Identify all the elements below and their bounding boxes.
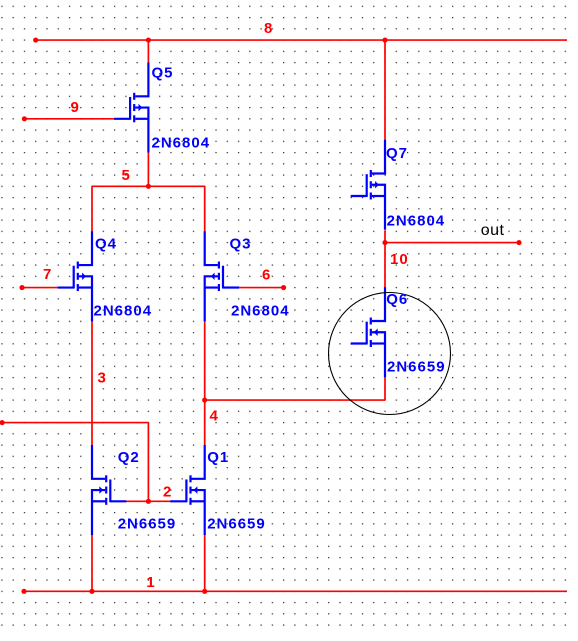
wire node 10 out wire <box>385 242 519 244</box>
svg-text:out: out <box>481 222 505 239</box>
junction node 8 / Q7 drain <box>382 37 387 42</box>
wire node 3 Q4 source to Q2 drain <box>91 320 93 446</box>
transistor Q5 <box>114 63 148 153</box>
svg-text:Q6: Q6 <box>386 291 408 308</box>
transistor Q4 <box>58 231 92 321</box>
wire Q5 drain to node 8 <box>147 40 149 63</box>
transistor Q6 <box>351 287 385 377</box>
junction node 1 / Q1 source <box>202 589 207 594</box>
svg-text:3: 3 <box>98 370 107 387</box>
highlight circle around Q6 <box>329 293 451 415</box>
svg-text:Q5: Q5 <box>152 65 174 82</box>
wire Q3 source to node 4 <box>204 320 206 400</box>
transistor Q3 <box>205 231 239 321</box>
svg-text:5: 5 <box>122 167 131 184</box>
wire node 5 drop to Q4 drain <box>91 186 93 231</box>
wire Q7 source to Q6 drain <box>384 230 386 288</box>
svg-text:Q1: Q1 <box>207 449 229 466</box>
wire node 8 bus <box>36 39 567 41</box>
svg-text:9: 9 <box>71 99 80 116</box>
terminal node 9 left end <box>22 116 27 121</box>
svg-text:4: 4 <box>210 408 219 425</box>
wire Q7 drain to node 8 <box>384 40 386 141</box>
wire node 1 bus <box>24 590 567 592</box>
terminal out end <box>516 240 521 245</box>
wire node 2 gate rail <box>126 500 173 502</box>
svg-text:Q4: Q4 <box>95 236 117 253</box>
terminal node 8 left end <box>33 37 38 42</box>
wire node 5 drop to Q3 drain <box>204 186 206 231</box>
junction node 10 <box>382 240 387 245</box>
transistor Q1 <box>170 445 204 535</box>
wire Q2 source to node 1 <box>91 535 93 592</box>
wire node 9 <box>24 118 114 120</box>
wire node 5 rail <box>92 185 205 187</box>
wire left input horizontal <box>2 422 148 424</box>
svg-text:2N6804: 2N6804 <box>387 212 446 229</box>
wire node 4 up to Q6 source <box>384 377 386 401</box>
svg-text:2N6659: 2N6659 <box>118 515 177 532</box>
terminal left input end <box>0 420 5 425</box>
svg-text:2N6804: 2N6804 <box>94 303 153 320</box>
wire node 4 down to Q1 drain <box>204 400 206 446</box>
wire node 4 rail <box>205 399 385 401</box>
svg-text:2N6804: 2N6804 <box>152 134 211 151</box>
wire Q1 source to node 1 <box>204 535 206 592</box>
svg-text:2N6659: 2N6659 <box>207 515 266 532</box>
svg-text:10: 10 <box>390 251 409 268</box>
svg-text:2: 2 <box>163 484 172 501</box>
svg-text:Q3: Q3 <box>230 236 252 253</box>
svg-text:1: 1 <box>146 574 155 591</box>
transistor Q2 <box>92 445 126 535</box>
junction node 8 / Q5 drain <box>146 37 151 42</box>
junction node 4 <box>202 397 207 402</box>
junction node 5 / Q5 source <box>146 184 151 189</box>
svg-text:2N6659: 2N6659 <box>387 358 446 375</box>
svg-text:Q2: Q2 <box>118 449 140 466</box>
wire left input drop to node 2 <box>147 423 149 502</box>
wire node 7 <box>22 287 59 289</box>
svg-text:7: 7 <box>43 266 52 283</box>
terminal node 6 right end <box>281 285 286 290</box>
wire node 6 <box>238 287 283 289</box>
transistor Q7 <box>351 140 385 230</box>
svg-text:2N6804: 2N6804 <box>231 303 290 320</box>
svg-text:Q7: Q7 <box>386 145 408 162</box>
junction node 1 / Q2 source <box>89 589 94 594</box>
wire Q5 source to node 5 <box>147 152 149 187</box>
junction node 2 <box>146 499 151 504</box>
svg-text:8: 8 <box>264 20 273 37</box>
terminal node 1 left end <box>21 589 26 594</box>
terminal node 7 left end <box>19 285 24 290</box>
svg-text:6: 6 <box>262 267 271 284</box>
